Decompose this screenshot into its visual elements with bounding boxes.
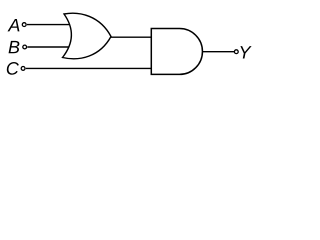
node C label — [7, 62, 19, 75]
node A label — [8, 19, 20, 31]
node Y label — [240, 46, 251, 58]
wire AND output to Y — [203, 51, 235, 53]
terminal A — [22, 23, 26, 27]
terminal C — [21, 67, 25, 71]
OR gate U1 — [63, 13, 112, 59]
terminal B — [23, 45, 27, 49]
AND gate U2 — [151, 29, 202, 75]
wire A to OR input — [27, 24, 70, 26]
node B label — [9, 41, 20, 53]
terminal Y — [234, 50, 238, 54]
wire OR output to AND input — [111, 36, 152, 38]
wire C to AND input — [26, 67, 151, 69]
wire B to OR input — [27, 46, 70, 48]
